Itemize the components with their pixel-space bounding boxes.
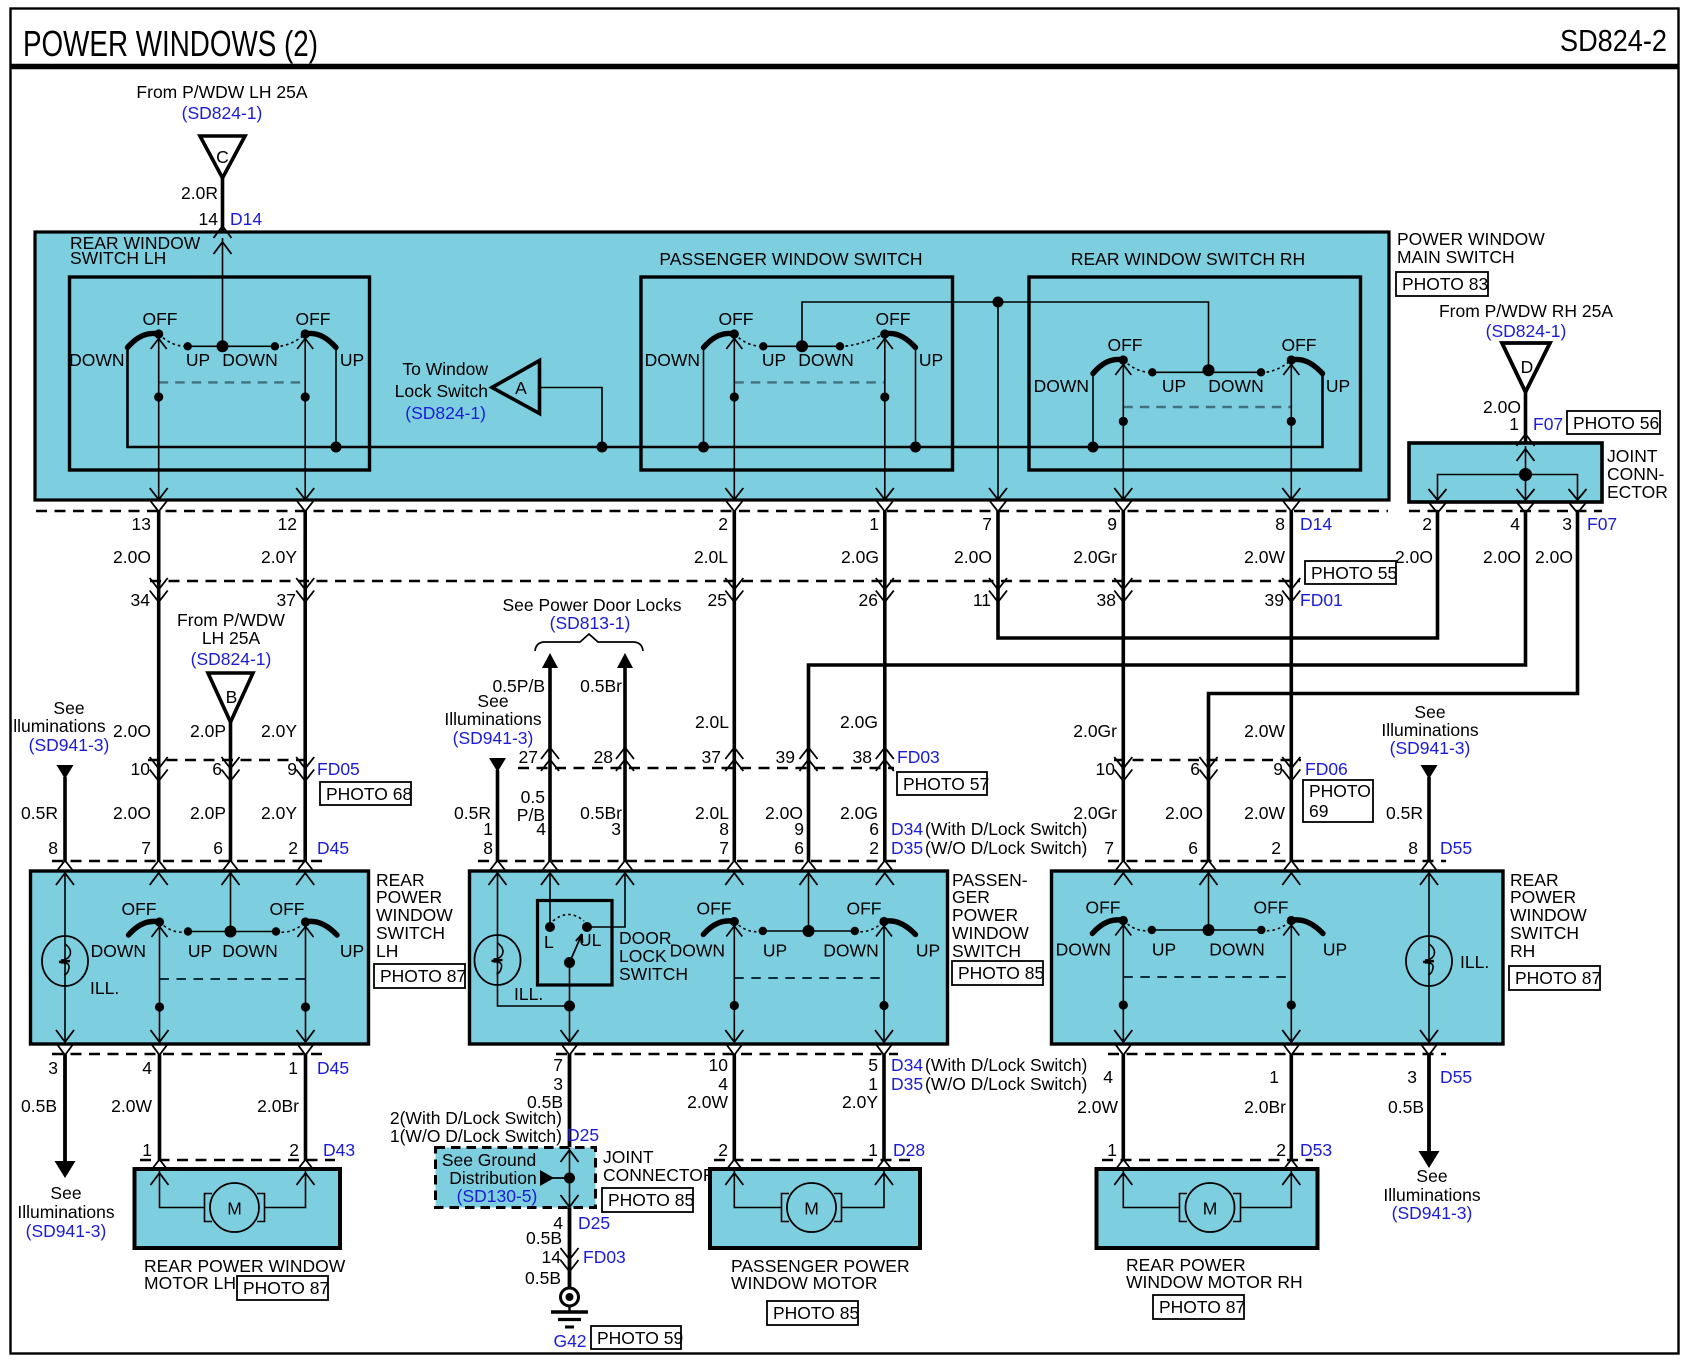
svg-text:26: 26 [859, 590, 878, 610]
wire 8-39 (2.0W) [1290, 511, 1294, 581]
chevrons wires entering LH switch box [56, 873, 74, 885]
chevron JC leg pin4 [1517, 489, 1535, 500]
svg-text:FD03: FD03 [583, 1247, 626, 1267]
svg-text:2: 2 [1271, 838, 1281, 858]
connector triangle B [208, 673, 253, 722]
svg-text:D: D [1521, 357, 1534, 377]
svg-text:(SD130-5): (SD130-5) [457, 1186, 538, 1206]
wire passenger pin7/3 (0.5B) down [568, 1054, 572, 1147]
PHOTO 55 box [1305, 561, 1397, 584]
svg-text:2.0Y: 2.0Y [261, 547, 297, 567]
chevrons FD05 pin9 [296, 757, 314, 781]
wire pin7 column inside box [997, 302, 999, 500]
svg-text:From P/WDW: From P/WDW [177, 610, 285, 630]
chevrons FD03 pin39 (up) [800, 748, 818, 772]
svg-text:PHOTO 57: PHOTO 57 [903, 774, 989, 794]
power window main switch box [35, 232, 1389, 500]
chevrons pin11 [989, 578, 1007, 602]
node RH power pivot1 [1119, 1000, 1128, 1009]
svg-text:2.0O: 2.0O [113, 547, 151, 567]
chevron pass pin3 [616, 861, 634, 873]
bus junction node A-tap [597, 442, 608, 453]
chevron D55 pin6 [1200, 861, 1218, 873]
door lock contact L [545, 922, 555, 932]
svg-text:See: See [50, 1183, 81, 1203]
svg-text:UP: UP [916, 941, 940, 961]
wire LH power pivot2 down [305, 922, 307, 1044]
chevron D53 pin2 [1282, 1160, 1300, 1172]
svg-text:2: 2 [869, 838, 879, 858]
svg-text:WINDOW MOTOR: WINDOW MOTOR [731, 1273, 877, 1293]
svg-text:F07: F07 [1587, 514, 1617, 534]
svg-text:7: 7 [719, 838, 729, 858]
svg-text:PASSENGER WINDOW SWITCH: PASSENGER WINDOW SWITCH [659, 249, 922, 269]
wire RH DOWN contact to bus [1092, 373, 1094, 447]
chevron D55 pin8 [1420, 861, 1438, 873]
svg-text:OFF: OFF [1108, 335, 1143, 355]
svg-text:SWITCH LH: SWITCH LH [70, 248, 166, 268]
PHOTO 85 box (passenger motor) [767, 1301, 859, 1325]
wire D to joint connector (2.0O) [1524, 392, 1528, 443]
svg-text:2.0O: 2.0O [954, 547, 992, 567]
svg-text:MAIN SWITCH: MAIN SWITCH [1397, 247, 1515, 267]
wire passenger power pivot2 down [883, 922, 885, 1045]
svg-text:1: 1 [142, 1140, 152, 1160]
svg-text:CONN-: CONN- [1607, 464, 1665, 484]
svg-text:From P/WDW LH 25A: From P/WDW LH 25A [136, 82, 307, 102]
svg-text:See Ground: See Ground [442, 1150, 536, 1170]
chevron D55 pin2 [1282, 861, 1300, 873]
chevron JC pin3 below [1569, 502, 1587, 513]
node LH switch common feed [217, 340, 229, 352]
node on RH pivot2 wire [1287, 417, 1296, 426]
node passenger power pivot2 [879, 1001, 888, 1010]
chevron D34b pin10/4 [725, 1043, 743, 1055]
wire C to main switch (2.0R) [221, 178, 225, 232]
svg-text:B: B [226, 687, 238, 707]
chevrons FD06 pin6 [1200, 757, 1218, 781]
wire RH power contacts link [1152, 929, 1262, 931]
rear window switch RH inner box [1029, 277, 1361, 470]
svg-text:UP: UP [188, 941, 212, 961]
svg-text:PHOTO 83: PHOTO 83 [1402, 274, 1488, 294]
svg-text:38: 38 [853, 747, 872, 767]
svg-text:2: 2 [1422, 514, 1432, 534]
svg-text:2.0Y: 2.0Y [261, 721, 297, 741]
svg-text:OFF: OFF [697, 899, 732, 919]
svg-text:0.5B: 0.5B [526, 1228, 562, 1248]
wire B to FD05 (2.0P) [229, 722, 233, 760]
arrow to power door locks (0.5P/B) [542, 653, 558, 668]
svg-text:DOWN: DOWN [1208, 376, 1263, 396]
svg-text:9: 9 [794, 819, 804, 839]
svg-text:DOWN: DOWN [222, 941, 277, 961]
svg-text:(SD824-1): (SD824-1) [191, 649, 272, 669]
chevron pin12 [296, 500, 314, 512]
svg-text:6: 6 [794, 838, 804, 858]
svg-text:MOTOR LH: MOTOR LH [144, 1273, 236, 1293]
svg-text:OFF: OFF [270, 899, 305, 919]
title separator line [10, 64, 1679, 70]
arrow from illuminations (0.5R passenger) [489, 758, 506, 772]
joint connector box [1409, 443, 1602, 502]
chevrons FD03 pin14 [561, 1248, 579, 1272]
svg-text:UP: UP [186, 350, 210, 370]
svg-text:WINDOW: WINDOW [952, 923, 1029, 943]
svg-text:2: 2 [718, 1140, 728, 1160]
wire LH pin1 to motor (2.0Br) [304, 1054, 308, 1160]
connector row D34/D35 below passenger switch [556, 1053, 898, 1056]
svg-text:(SD824-1): (SD824-1) [405, 403, 486, 423]
svg-text:DOWN: DOWN [222, 350, 277, 370]
wire 0.5P/B to FD03 pin27 [548, 666, 552, 768]
PHOTO 85 box (passenger switch) [952, 961, 1044, 985]
node LH power common [225, 926, 237, 938]
svg-text:14: 14 [542, 1247, 562, 1267]
svg-text:6: 6 [212, 759, 222, 779]
svg-text:ECTOR: ECTOR [1607, 482, 1668, 502]
wire passenger common feed riser [802, 302, 1209, 370]
svg-text:8: 8 [1275, 514, 1285, 534]
door lock common node [564, 957, 575, 968]
arrow to power door locks (0.5Br) [617, 653, 633, 668]
svg-text:(SD941-3): (SD941-3) [453, 728, 534, 748]
ground JC tap node [564, 1173, 575, 1184]
svg-text:3: 3 [611, 819, 621, 839]
svg-text:UP: UP [1326, 376, 1350, 396]
svg-text:2.0O: 2.0O [1395, 547, 1433, 567]
ILL lamp RH [1406, 936, 1489, 986]
rear power window motor LH box [135, 1169, 341, 1248]
wire RH pin3 (0.5B) [1427, 1054, 1431, 1153]
door lock switch box [538, 901, 613, 986]
wire passenger contacts link [763, 345, 840, 347]
svg-text:(SD824-1): (SD824-1) [182, 103, 263, 123]
chevron D55b pin4 [1114, 1043, 1132, 1055]
svg-text:0.5B: 0.5B [21, 1096, 57, 1116]
wire LH pivot1 down to pin 13 [158, 334, 160, 500]
svg-text:0.5B: 0.5B [525, 1268, 561, 1288]
wire door lock common down [569, 963, 571, 1045]
chevron JC pin4 below [1517, 502, 1535, 513]
svg-text:POWER: POWER [376, 887, 442, 907]
node RH power common [1203, 924, 1215, 936]
svg-text:M: M [804, 1199, 819, 1219]
PHOTO 87 box (RH switch) [1509, 966, 1601, 990]
PHOTO 59 box [591, 1326, 683, 1349]
svg-text:OFF: OFF [719, 309, 754, 329]
svg-text:1: 1 [1269, 1067, 1279, 1087]
mechanical link RH (dashed) [1123, 406, 1291, 408]
switch lever passenger unit2 [798, 309, 943, 370]
svg-text:POWER WINDOW: POWER WINDOW [1397, 229, 1545, 249]
chevrons entering RH motor [1114, 1173, 1132, 1185]
svg-text:6: 6 [1190, 759, 1200, 779]
svg-text:Lock Switch: Lock Switch [395, 381, 488, 401]
svg-text:5: 5 [868, 1055, 878, 1075]
node RH common feed [1203, 364, 1215, 376]
PHOTO 85 box (ground JC) [602, 1188, 694, 1212]
svg-text:2.0W: 2.0W [111, 1096, 152, 1116]
connector row FD06 [1114, 759, 1301, 762]
wire passenger power contacts link [763, 930, 855, 932]
chevron D43 pin2 [297, 1160, 315, 1172]
wire RH pivot1 down to pin 9 [1122, 360, 1124, 500]
arrow from illuminations (0.5R LH) [57, 765, 74, 779]
svg-text:8: 8 [48, 838, 58, 858]
svg-text:7: 7 [1104, 838, 1114, 858]
wire FD03 pin28 to switch (0.5Br) [623, 768, 627, 861]
mechanical link RH power (dashed) [1123, 976, 1291, 978]
chevrons wire D14 entering main switch [214, 226, 232, 254]
wire 0.5R passenger ILL [496, 770, 500, 861]
bus junction node RH-down [1088, 442, 1099, 453]
svg-text:POWER: POWER [1510, 887, 1576, 907]
svg-text:SWITCH: SWITCH [376, 923, 445, 943]
svg-text:0.5B: 0.5B [1388, 1097, 1424, 1117]
chevrons FD03 pin28 (up) [616, 748, 634, 772]
svg-text:D35: D35 [891, 1074, 923, 1094]
svg-text:PHOTO 85: PHOTO 85 [608, 1190, 694, 1210]
svg-text:69: 69 [1309, 801, 1328, 821]
door lock contact UL [582, 922, 592, 932]
chevron JC leg pin3 [1569, 489, 1587, 500]
svg-text:2.0P: 2.0P [190, 803, 226, 823]
svg-text:7: 7 [141, 838, 151, 858]
chevrons wires entering RH switch box [1114, 873, 1132, 885]
svg-text:Illuminations: Illuminations [8, 716, 106, 736]
PHOTO 83 box [1396, 272, 1488, 296]
svg-text:Illuminations: Illuminations [17, 1202, 115, 1222]
svg-text:D34: D34 [891, 1055, 923, 1075]
passenger power window motor box [710, 1169, 920, 1248]
svg-text:2.0Br: 2.0Br [257, 1096, 299, 1116]
svg-text:2.0L: 2.0L [695, 712, 729, 732]
svg-text:37: 37 [277, 590, 296, 610]
svg-text:PHOTO 85: PHOTO 85 [958, 963, 1044, 983]
PHOTO 68 box [320, 782, 412, 805]
svg-text:PHOTO 59: PHOTO 59 [597, 1328, 683, 1348]
mechanical link LH power (dashed) [160, 978, 306, 980]
bus junction node passenger-down [698, 442, 709, 453]
chevron pass pin6/2 [876, 861, 894, 873]
svg-text:D45: D45 [317, 838, 349, 858]
ILL lamp passenger [475, 935, 544, 1004]
svg-text:10: 10 [709, 1055, 729, 1075]
svg-text:See: See [1414, 702, 1445, 722]
svg-text:2.0Y: 2.0Y [261, 803, 297, 823]
wire passenger pivot2 down to pin 1 [884, 334, 886, 500]
wire 9-38 (2.0Gr) [1122, 511, 1126, 581]
chevron pass pin8/7 [725, 861, 743, 873]
arrow from illuminations (0.5R RH) [1421, 765, 1438, 779]
svg-text:Illuminations: Illuminations [1383, 1185, 1481, 1205]
svg-text:See: See [1416, 1166, 1447, 1186]
svg-text:LH 25A: LH 25A [202, 628, 261, 648]
svg-text:See Power Door Locks: See Power Door Locks [503, 595, 682, 615]
svg-text:(SD824-1): (SD824-1) [1486, 321, 1567, 341]
wire 25-FD03 (2.0L) [732, 581, 736, 768]
chevron pass pin9/6 [800, 861, 818, 873]
svg-text:6: 6 [1188, 838, 1198, 858]
wire triangle A to bus [540, 388, 603, 448]
svg-text:2.0W: 2.0W [1244, 803, 1285, 823]
svg-text:2.0O: 2.0O [1535, 547, 1573, 567]
chevron D45b pin3 [56, 1043, 74, 1055]
svg-text:1: 1 [869, 514, 879, 534]
svg-text:7: 7 [982, 514, 992, 534]
PHOTO 56 box [1567, 411, 1660, 434]
connector row under joint connector (F07) [1409, 510, 1602, 513]
wire 13-34 (2.0O) [157, 511, 161, 581]
svg-text:DOWN: DOWN [1034, 376, 1089, 396]
svg-text:39: 39 [776, 747, 795, 767]
connector row D45 above LH switch [52, 860, 323, 863]
wire LH power common to top [230, 871, 232, 932]
ILL lamp LH [42, 936, 119, 998]
svg-text:2.0Gr: 2.0Gr [1073, 547, 1117, 567]
arrow to illuminations (RH bottom) [1419, 1151, 1440, 1168]
svg-text:2.0W: 2.0W [1244, 721, 1285, 741]
svg-text:2.0O: 2.0O [1483, 547, 1521, 567]
chevron D55b pin3 [1420, 1043, 1438, 1055]
svg-text:2.0W: 2.0W [1244, 547, 1285, 567]
svg-text:2.0Y: 2.0Y [842, 1092, 878, 1112]
wire LH power pivot1 down [159, 922, 161, 1044]
chevrons FD05 pin10 [150, 757, 168, 781]
svg-text:1: 1 [1509, 414, 1519, 434]
svg-text:FD06: FD06 [1305, 759, 1348, 779]
svg-text:0.5Br: 0.5Br [580, 676, 622, 696]
node passenger common feed [796, 340, 808, 352]
svg-text:See: See [53, 698, 84, 718]
PHOTO 87 box (LH motor) [237, 1276, 329, 1300]
node LH power pivot2 [301, 1002, 310, 1011]
chevrons pin25 [725, 578, 743, 602]
chevrons wires leaving LH switch box [56, 1030, 74, 1042]
node on pivot1 wire [154, 392, 163, 401]
chevrons FD03 pin27 (up) [541, 748, 559, 772]
switch lever LH unit2 [222, 309, 364, 370]
svg-text:10: 10 [1096, 759, 1116, 779]
chevrons wires leaving passenger switch box [561, 1030, 579, 1042]
svg-text:4: 4 [1103, 1067, 1113, 1087]
svg-text:UP: UP [340, 941, 364, 961]
wire RH power pivot1 down [1122, 921, 1124, 1045]
connector row D34/D35 above passenger switch [478, 860, 898, 863]
svg-text:D43: D43 [323, 1140, 355, 1160]
svg-text:2: 2 [718, 514, 728, 534]
svg-text:2: 2 [289, 1140, 299, 1160]
wire F07 inside joint connector [1525, 446, 1527, 475]
PHOTO 87 box (RH motor) [1153, 1295, 1245, 1319]
svg-text:OFF: OFF [143, 309, 178, 329]
bus junction node passenger-up [910, 442, 921, 453]
wire 12-37 (2.0Y) [303, 511, 307, 581]
ground G42 symbol [551, 1288, 588, 1327]
motor M passenger [734, 1169, 884, 1232]
node feed to pin7 wire [993, 297, 1004, 308]
mechanical link passenger (dashed) [734, 381, 885, 383]
wire 39-FD06 (2.0W) [1290, 581, 1294, 760]
chevron D45b pin4 [151, 1043, 169, 1055]
svg-text:(SD941-3): (SD941-3) [26, 1221, 107, 1241]
svg-text:27: 27 [519, 747, 538, 767]
svg-text:7: 7 [553, 1055, 563, 1075]
svg-text:4: 4 [718, 1074, 728, 1094]
svg-text:D28: D28 [893, 1140, 925, 1160]
svg-text:0.5R: 0.5R [1386, 803, 1423, 823]
passenger power window switch box [470, 871, 948, 1044]
svg-text:G42: G42 [553, 1331, 586, 1351]
svg-text:PHOTO 87: PHOTO 87 [1515, 968, 1601, 988]
svg-text:UL: UL [579, 930, 602, 950]
node on pivot2 wire [301, 392, 310, 401]
wire RH pivot2 down to pin 8 [1290, 360, 1292, 500]
svg-text:M: M [1203, 1199, 1218, 1219]
door lock lever [570, 934, 583, 963]
svg-text:1: 1 [288, 1058, 298, 1078]
svg-text:2.0O: 2.0O [113, 721, 151, 741]
svg-text:D14: D14 [1300, 514, 1332, 534]
wire FD06 pin6 to switch (2.0O) [1207, 760, 1211, 861]
connector row FD05 [148, 759, 313, 762]
chevrons pin38 [1114, 578, 1132, 602]
wire FD06 pin10 to switch (2.0Gr) [1122, 760, 1126, 861]
node RH power pivot2 [1287, 1000, 1296, 1009]
svg-text:LOCK: LOCK [619, 946, 667, 966]
chevron D53 pin1 [1114, 1160, 1132, 1172]
wire passenger pin10/4 to motor (2.0W) [732, 1054, 736, 1160]
wire FD05 pin9 to switch (2.0Y) [303, 760, 307, 861]
connector row D55 below RH switch [1108, 1053, 1446, 1056]
node LH power pivot1 [155, 1002, 164, 1011]
svg-text:(With D/Lock Switch): (With D/Lock Switch) [925, 819, 1087, 839]
svg-text:2(With D/Lock Switch): 2(With D/Lock Switch) [390, 1108, 562, 1128]
svg-text:FD01: FD01 [1300, 590, 1343, 610]
chevrons at main switch bottom edge [150, 488, 168, 500]
chevrons FD03 pin38 (up) [876, 748, 894, 772]
svg-text:3: 3 [1562, 514, 1572, 534]
chevron D45 pin8 [56, 861, 74, 873]
svg-text:DOWN: DOWN [91, 941, 146, 961]
wire 0.5R RH ILL [1427, 777, 1431, 861]
passenger window switch inner box [641, 277, 953, 470]
svg-text:2.0G: 2.0G [840, 712, 878, 732]
svg-text:3: 3 [553, 1074, 563, 1094]
wire passenger DOWN contact to bus [703, 348, 705, 447]
svg-text:8: 8 [483, 838, 493, 858]
connector row D45 below LH switch [52, 1053, 323, 1056]
chevrons entering passenger motor [725, 1173, 743, 1185]
connector row 2 (FD01) [150, 580, 1300, 583]
svg-text:2.0Br: 2.0Br [1244, 1097, 1286, 1117]
svg-text:2.0W: 2.0W [687, 1092, 728, 1112]
wire FD05 pin6 to switch (2.0P) [229, 760, 233, 861]
mechanical link LH (dashed) [159, 381, 306, 383]
wire ground JC to G42 (0.5B) [568, 1208, 572, 1289]
PHOTO 57 box [897, 772, 989, 795]
wire 1-26 (2.0G) [883, 511, 887, 581]
chevron pass pin1/8 [489, 861, 507, 873]
rear power window motor RH box [1097, 1169, 1318, 1248]
svg-text:DOWN: DOWN [1056, 940, 1111, 960]
connector row D28 [714, 1159, 916, 1162]
svg-text:D25: D25 [578, 1213, 610, 1233]
svg-text:25: 25 [708, 590, 727, 610]
switch lever RH unit1 [1034, 335, 1187, 396]
svg-text:14: 14 [199, 209, 219, 229]
